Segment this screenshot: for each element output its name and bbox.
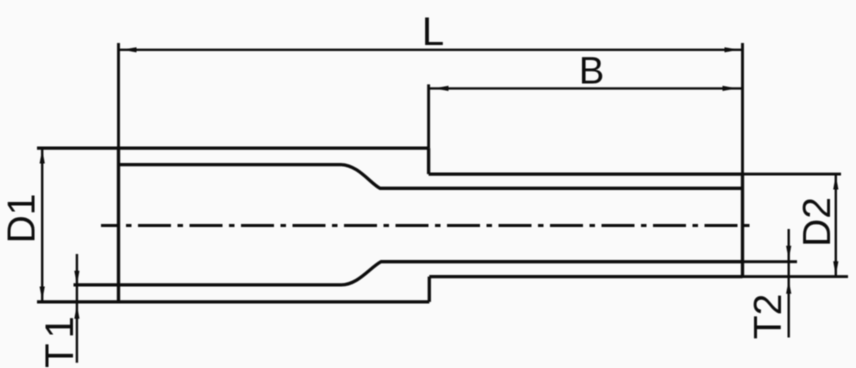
svg-text:T2: T2 <box>747 294 790 340</box>
svg-text:D2: D2 <box>796 197 839 247</box>
svg-text:T1: T1 <box>38 311 82 368</box>
svg-text:L: L <box>422 10 444 54</box>
tube outer profile: bottom line of small section <box>429 275 742 278</box>
extension line for T2 (inner wall, to right of tube) <box>743 260 798 263</box>
dimension line D2 <box>835 175 837 276</box>
extension line for B (left) <box>427 84 430 148</box>
bottom step between large and small section <box>428 277 431 302</box>
svg-text:B: B <box>579 51 604 93</box>
extension line for L and B (right, above tube) <box>741 43 744 174</box>
extension line for L (left, above tube) <box>117 43 120 148</box>
svg-text:D1: D1 <box>1 194 44 244</box>
inner wall bottom line with neck-down transition (extends left for T1) <box>74 262 743 285</box>
dimension line B <box>430 87 743 89</box>
extension line for D2 and T2 (bottom, to right of tube) <box>743 275 849 278</box>
top step between large and small section <box>427 148 430 174</box>
extension line for D2 (top, to right of tube) <box>743 173 842 176</box>
dimension line T2 (continuous, down-arrow at inner wall, up-arrow at outer wall) <box>788 229 790 338</box>
tube outer profile: bottom line of large section (with D1 extension to left) <box>37 300 429 303</box>
tube outer profile: top line of large section (with D1 extension to left) <box>37 146 429 149</box>
tube outer profile: top line of small section <box>429 172 743 175</box>
inner wall top line with neck-down transition <box>119 165 743 189</box>
dimension line L <box>119 49 743 51</box>
centerline (dash-dot axis) <box>101 224 750 227</box>
tube left end face <box>117 148 120 302</box>
dimension line D1 <box>41 149 43 302</box>
dimension line T1 (continuous, down-arrow at inner wall, up-arrow at outer wall) <box>76 254 78 363</box>
tube right end face <box>741 174 744 277</box>
